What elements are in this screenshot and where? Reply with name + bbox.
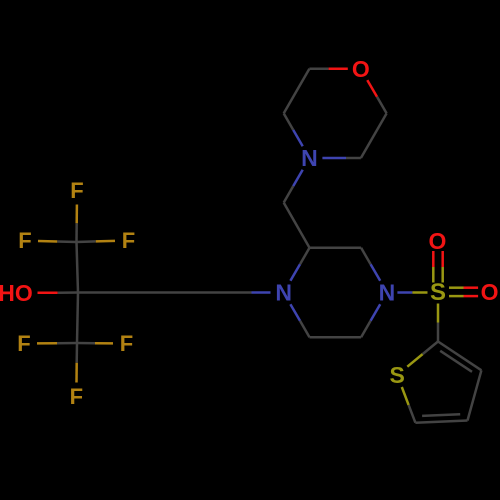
bond centralC-CF3bottom (77, 293, 78, 344)
propyl chain to piperazine N1 (78, 291, 271, 294)
double bond S=O up (433, 251, 442, 283)
bond thiophene C5-S (402, 387, 416, 423)
thiophene C4=C5 outer (415, 421, 467, 423)
bond N1-C6(ring bottom-left) (290, 304, 309, 337)
piperazine top edge C2-C3ring (310, 247, 362, 250)
svg-text:F: F (122, 228, 135, 253)
svg-text:F: F (17, 331, 30, 356)
thiophene C4=C5 inner line (422, 414, 460, 416)
bond CF3bottom-F right (77, 342, 113, 345)
bond N2-S sulfonyl (397, 291, 427, 294)
bond CF3top-F up (75, 205, 78, 243)
svg-text:F: F (70, 178, 83, 203)
piperazine bottom edge (310, 336, 362, 339)
bond CF3bottom-F down (75, 343, 78, 383)
bond CF3top-F left (38, 241, 77, 242)
svg-text:N: N (379, 280, 396, 306)
svg-text:S: S (390, 362, 405, 388)
svg-text:F: F (18, 228, 31, 253)
svg-text:S: S (430, 279, 446, 306)
bond S-thiophene C2 (437, 304, 440, 342)
bond CH2bridge-piperazineC2 (284, 203, 310, 248)
bond morpholine C-N3 (horizontal) (322, 157, 361, 160)
bond centralC-CF3top (77, 242, 79, 293)
bond CF3top-F right (77, 241, 116, 242)
bond HO-C (hydroxyl to central carbon) (38, 291, 79, 294)
bond N2-C5ring(bottom-right) (361, 304, 380, 337)
bond N3-morpholine C (up-left) (284, 113, 303, 146)
svg-text:O: O (352, 56, 370, 82)
thiophene C3-C4 (468, 370, 482, 420)
svg-text:HO: HO (0, 280, 33, 306)
svg-text:N: N (275, 280, 292, 306)
thiophene C2=C3 inner line (440, 351, 472, 372)
svg-text:F: F (70, 384, 83, 409)
bond thiophene S-C2 (407, 342, 438, 367)
bond N1-C2(ring top-left) (290, 248, 309, 281)
bond O-morpholine CH2 right (367, 80, 386, 113)
bond N3-CH2bridge (284, 170, 303, 203)
svg-text:N: N (301, 145, 318, 171)
bond CF3bottom-F left (37, 342, 77, 345)
bond N2-C3ring(top-right) (361, 248, 380, 281)
thiophene C2=C3 outer (438, 342, 481, 371)
morpholine right edge (361, 113, 387, 158)
morpholine left edge (284, 69, 310, 114)
svg-text:O: O (429, 228, 447, 254)
svg-text:F: F (120, 331, 133, 356)
double bond S=O right (449, 288, 478, 296)
svg-text:O: O (481, 279, 499, 305)
bond morpholine CH2-O top edge (309, 68, 347, 71)
